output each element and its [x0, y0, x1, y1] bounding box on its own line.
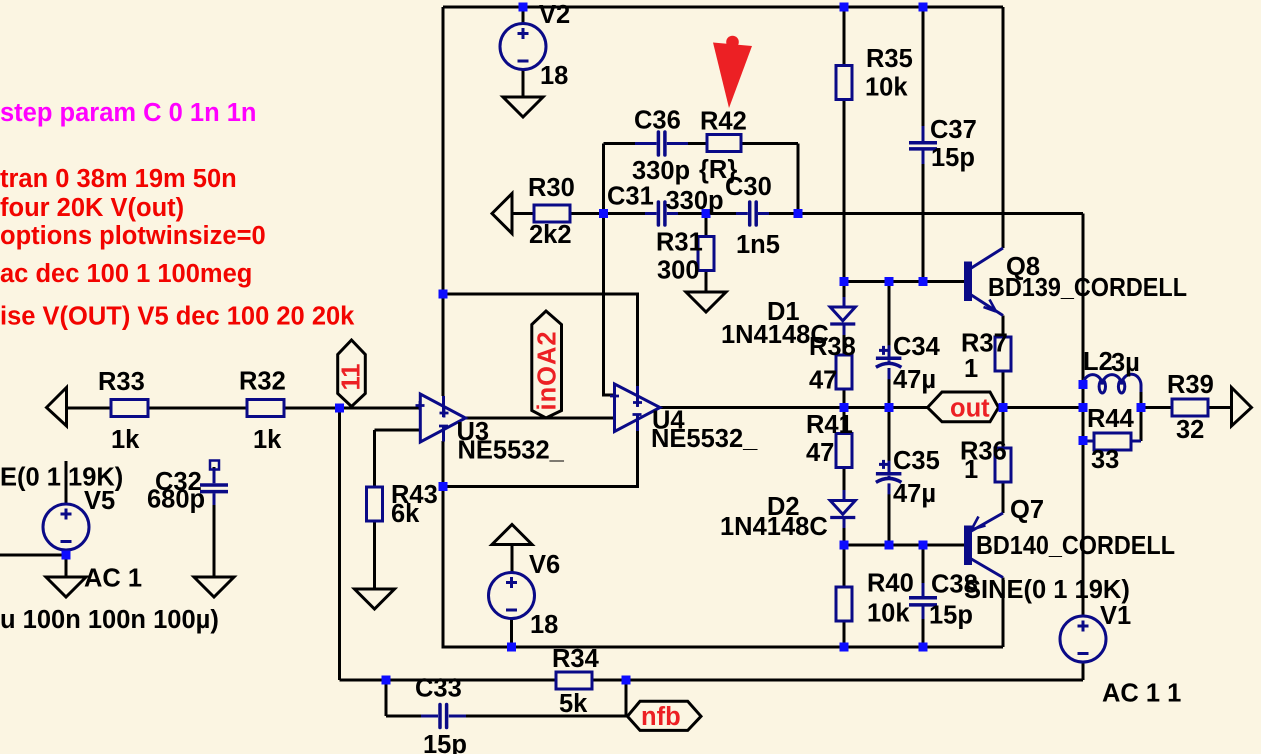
- svg-text:BD139_CORDELL: BD139_CORDELL: [988, 274, 1187, 302]
- svg-text:AC 1 1: AC 1 1: [1102, 680, 1181, 708]
- svg-text:1k: 1k: [253, 426, 282, 454]
- svg-text:V2: V2: [539, 1, 570, 29]
- svg-text:NE5532_: NE5532_: [651, 425, 758, 453]
- svg-text:R41: R41: [806, 411, 853, 439]
- svg-text:R35: R35: [866, 45, 913, 73]
- svg-text:NE5532_: NE5532_: [458, 437, 565, 465]
- svg-text:R40: R40: [867, 570, 914, 598]
- svg-text:C36: C36: [634, 107, 681, 135]
- svg-text:C34: C34: [893, 333, 941, 361]
- svg-text:Q7: Q7: [1010, 496, 1044, 524]
- svg-text:3µ: 3µ: [1111, 349, 1140, 377]
- svg-text:out: out: [950, 395, 990, 423]
- svg-text:1: 1: [964, 355, 978, 383]
- svg-text:R37: R37: [961, 330, 1008, 358]
- svg-text:47µ: 47µ: [893, 366, 936, 394]
- svg-text:47µ: 47µ: [893, 480, 936, 508]
- svg-text:33: 33: [1091, 446, 1119, 474]
- svg-text:2k2: 2k2: [529, 221, 572, 249]
- svg-text:11: 11: [338, 364, 366, 391]
- svg-text:inOA2: inOA2: [534, 330, 562, 410]
- svg-text:15p: 15p: [929, 602, 973, 630]
- svg-text:10k: 10k: [867, 600, 910, 628]
- svg-text:18: 18: [530, 611, 558, 639]
- svg-text:options plotwinsize=0: options plotwinsize=0: [0, 222, 266, 250]
- svg-text:R32: R32: [239, 368, 286, 396]
- svg-text:330p: 330p: [666, 187, 724, 215]
- svg-text:1N4148C: 1N4148C: [720, 513, 828, 541]
- svg-text:tran 0 38m 19m 50n: tran 0 38m 19m 50n: [0, 165, 237, 193]
- svg-text:680p: 680p: [147, 486, 205, 514]
- svg-text:1: 1: [964, 456, 978, 484]
- svg-text:ise V(OUT) V5 dec 100 20 20k: ise V(OUT) V5 dec 100 20 20k: [0, 303, 355, 331]
- svg-text:15p: 15p: [931, 144, 975, 172]
- svg-text:R30: R30: [528, 174, 575, 202]
- svg-text:E(0 1 19K): E(0 1 19K): [0, 464, 123, 492]
- svg-text:V6: V6: [529, 551, 560, 579]
- svg-text:R34: R34: [552, 645, 600, 673]
- svg-text:47: 47: [809, 367, 837, 395]
- svg-text:SINE(0 1 19K): SINE(0 1 19K): [964, 576, 1130, 604]
- svg-text:15p: 15p: [423, 731, 467, 754]
- svg-text:330p: 330p: [632, 157, 690, 185]
- svg-text:18: 18: [540, 62, 568, 90]
- svg-text:1n5: 1n5: [736, 231, 780, 259]
- svg-text:BD140_CORDELL: BD140_CORDELL: [976, 532, 1175, 560]
- svg-text:5k: 5k: [559, 690, 588, 718]
- svg-text:R44: R44: [1087, 405, 1135, 433]
- svg-text:300: 300: [657, 257, 700, 285]
- svg-text:32: 32: [1176, 416, 1204, 444]
- svg-text:u 100n 100n 100µ): u 100n 100n 100µ): [0, 606, 219, 634]
- svg-text:nfb: nfb: [641, 703, 681, 731]
- svg-text:L2: L2: [1083, 348, 1113, 376]
- svg-text:C33: C33: [415, 675, 462, 703]
- svg-text:10k: 10k: [865, 74, 908, 102]
- svg-text:R38: R38: [809, 333, 856, 361]
- svg-text:C35: C35: [893, 447, 940, 475]
- svg-text:R42: R42: [700, 108, 747, 136]
- svg-text:6k: 6k: [391, 500, 420, 528]
- svg-text:C30: C30: [725, 173, 772, 201]
- svg-text:step param C 0 1n 1n: step param C 0 1n 1n: [0, 99, 257, 127]
- svg-text:AC 1: AC 1: [84, 565, 142, 593]
- svg-text:R39: R39: [1167, 371, 1214, 399]
- svg-text:ac dec 100 1 100meg: ac dec 100 1 100meg: [0, 260, 252, 288]
- svg-text:four 20K V(out): four 20K V(out): [0, 194, 184, 222]
- svg-text:C37: C37: [930, 116, 977, 144]
- svg-text:R31: R31: [656, 229, 703, 257]
- svg-text:C31: C31: [607, 183, 654, 211]
- svg-text:V1: V1: [1100, 602, 1131, 630]
- svg-text:R33: R33: [98, 368, 145, 396]
- svg-text:47: 47: [806, 439, 834, 467]
- svg-text:1k: 1k: [111, 426, 140, 454]
